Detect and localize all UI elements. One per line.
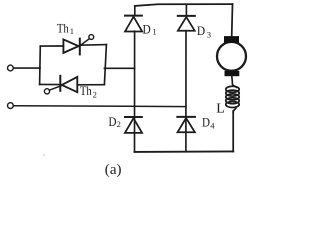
thyristor Th2 triangle xyxy=(62,77,78,92)
svg-text:4: 4 xyxy=(210,121,215,131)
wire top rail to D1 xyxy=(134,6,136,15)
diode D3 cathode bar xyxy=(178,15,195,17)
Th1 gate terminal circle xyxy=(89,35,94,40)
diode D4 triangle xyxy=(178,118,195,132)
wire box top-left side xyxy=(40,45,63,47)
motor top brush block xyxy=(224,36,239,43)
svg-text:D: D xyxy=(202,114,210,129)
bottom rail wire xyxy=(135,150,234,153)
AC input terminal 1 (upper) xyxy=(7,65,13,71)
bridge leg 1 vertical wire xyxy=(134,31,136,152)
AC input terminal 2 (lower) xyxy=(7,103,13,109)
top rail wire xyxy=(135,4,233,6)
svg-text:2: 2 xyxy=(93,90,97,100)
svg-text:(a): (a) xyxy=(105,162,122,178)
svg-text:D: D xyxy=(108,114,116,129)
wire thyristor box output to bridge node A xyxy=(104,67,134,69)
wire terminal1 to thyristor box xyxy=(13,67,40,69)
wire motor to inductor xyxy=(232,76,237,87)
faint scan speck xyxy=(43,154,45,156)
diode D1 triangle xyxy=(125,17,142,32)
svg-text:3: 3 xyxy=(207,29,211,39)
diode D2 triangle xyxy=(125,118,142,133)
wire box top-right side xyxy=(80,44,106,47)
wire top rail to D3 xyxy=(185,5,187,16)
wire top-right down to motor xyxy=(231,4,234,36)
dc motor M circle xyxy=(217,42,246,71)
svg-text:D: D xyxy=(197,23,205,38)
svg-text:2: 2 xyxy=(117,119,121,129)
Th2 gate terminal circle xyxy=(44,89,49,94)
svg-text:1: 1 xyxy=(152,27,156,37)
svg-text:D: D xyxy=(143,21,151,36)
svg-text:Th: Th xyxy=(57,21,69,36)
bridge leg 2 vertical wire xyxy=(185,31,187,152)
wire terminal2 to bridge node B xyxy=(13,105,186,108)
wire inductor bottom exit xyxy=(233,107,236,112)
diode D3 triangle xyxy=(178,17,195,31)
svg-text:L: L xyxy=(216,102,225,117)
svg-text:1: 1 xyxy=(70,26,74,36)
thyristor Th2 cathode bar xyxy=(59,76,61,91)
diode D1 cathode bar xyxy=(125,15,142,17)
Th2 gate lead xyxy=(49,86,61,90)
inductor L coil xyxy=(226,86,239,107)
Th1 gate lead xyxy=(80,39,89,46)
thyristor Th1 triangle xyxy=(63,39,78,53)
motor bottom brush block xyxy=(225,71,240,76)
thyristor box left vertical wire xyxy=(39,46,42,84)
diode D2 cathode bar xyxy=(125,116,142,118)
wire box bottom-left side xyxy=(40,83,61,85)
diode D4 cathode bar xyxy=(177,116,195,118)
wire box bottom-right side xyxy=(77,84,104,86)
thyristor box right vertical wire xyxy=(104,45,106,85)
wire bottom rail up to inductor xyxy=(232,111,234,151)
thyristor Th1 cathode bar xyxy=(79,39,81,55)
svg-text:Th: Th xyxy=(80,83,92,98)
